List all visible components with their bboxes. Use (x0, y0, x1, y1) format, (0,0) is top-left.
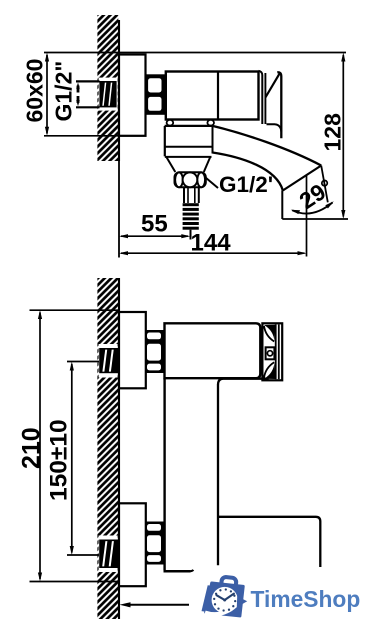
svg-text:144: 144 (191, 230, 232, 257)
lower thread pocket (99, 536, 118, 573)
o-ring foot right (207, 120, 214, 126)
o-ring foot left (167, 120, 174, 126)
G1/2 thread dimension arrows (76, 82, 80, 106)
upper escutcheon plate (front) (119, 312, 146, 388)
svg-text:G1/2": G1/2" (51, 61, 77, 122)
spout tip drop line (306, 176, 308, 257)
lower threaded pipe (99, 540, 118, 569)
dimension 128 (341, 53, 345, 220)
svg-text:150±10: 150±10 (46, 419, 73, 501)
extension line 210 top (30, 309, 120, 311)
supply pipe stub (76, 81, 100, 107)
spout base flange (165, 125, 213, 127)
clock face (212, 587, 238, 613)
lower hex nut (front) (146, 522, 164, 565)
escutcheon plate (side) (119, 55, 146, 136)
svg-text:128: 128 (320, 113, 346, 152)
hose ribs (183, 203, 199, 230)
spout behind handle (second view) (219, 517, 321, 567)
body divider line (217, 72, 219, 120)
wall (hatched section, upper view) (97, 15, 119, 161)
upper thread pocket (99, 344, 118, 378)
svg-text:TimeShop: TimeShop (251, 586, 361, 612)
extension line outlet level (282, 218, 348, 220)
svg-text:210: 210 (18, 427, 46, 469)
dimension 55 (119, 234, 190, 238)
spout angle ray (321, 166, 328, 203)
mixer body (side view) (166, 72, 259, 120)
extension line 210 bottom (30, 581, 120, 583)
spout outlet bottom line (281, 191, 283, 220)
lower escutcheon plate (front) (119, 503, 146, 586)
upper hex nut (front) (146, 330, 164, 373)
mixer body (second view) (165, 323, 261, 378)
angle arc with arrows (291, 201, 334, 214)
extension line 150 bottom (67, 554, 99, 556)
svg-text:G1/2': G1/2' (219, 172, 273, 197)
svg-text:55: 55 (141, 211, 168, 238)
wall thread pocket (white gap) (99, 78, 118, 111)
hose end tick (190, 230, 192, 240)
hose connector tube (184, 187, 199, 203)
dimension 210 (38, 310, 42, 582)
swoosh white band (205, 603, 239, 614)
lever handle hanging down (second view) (164, 378, 269, 571)
upper threaded pipe (99, 348, 118, 373)
cartridge cap strip (259, 71, 263, 124)
clock ticks (213, 588, 236, 611)
svg-text:60x60: 60x60 (22, 59, 48, 123)
dimension 60x60 (45, 53, 49, 136)
bag slash stroke (202, 585, 212, 611)
dimension 144 (119, 251, 307, 255)
dimension 150+-10 (70, 362, 74, 556)
logo bag icon (202, 577, 248, 616)
connector nut stack (side) (146, 74, 166, 115)
extension line 150 top (67, 361, 99, 363)
bag handle (221, 577, 237, 589)
spout under-body block (165, 126, 213, 172)
leader line G1/2' (206, 178, 219, 189)
threaded pipe in wall (99, 81, 116, 107)
extension line top (60x60 / 128) (44, 52, 346, 54)
extension line below wall (118, 161, 120, 258)
bag body (206, 583, 244, 616)
swoosh arrowhead (237, 596, 247, 607)
clock hands (217, 594, 234, 600)
extension line bottom of 60x60 (44, 135, 146, 137)
spout (waterfall curve) (213, 126, 322, 191)
hose hex nut (175, 172, 206, 187)
lever handle (side) (265, 72, 281, 138)
wall pointer arrow (120, 602, 190, 607)
cartridge cap (second view) (262, 323, 282, 380)
wall (hatched section, lower view) (97, 278, 119, 619)
